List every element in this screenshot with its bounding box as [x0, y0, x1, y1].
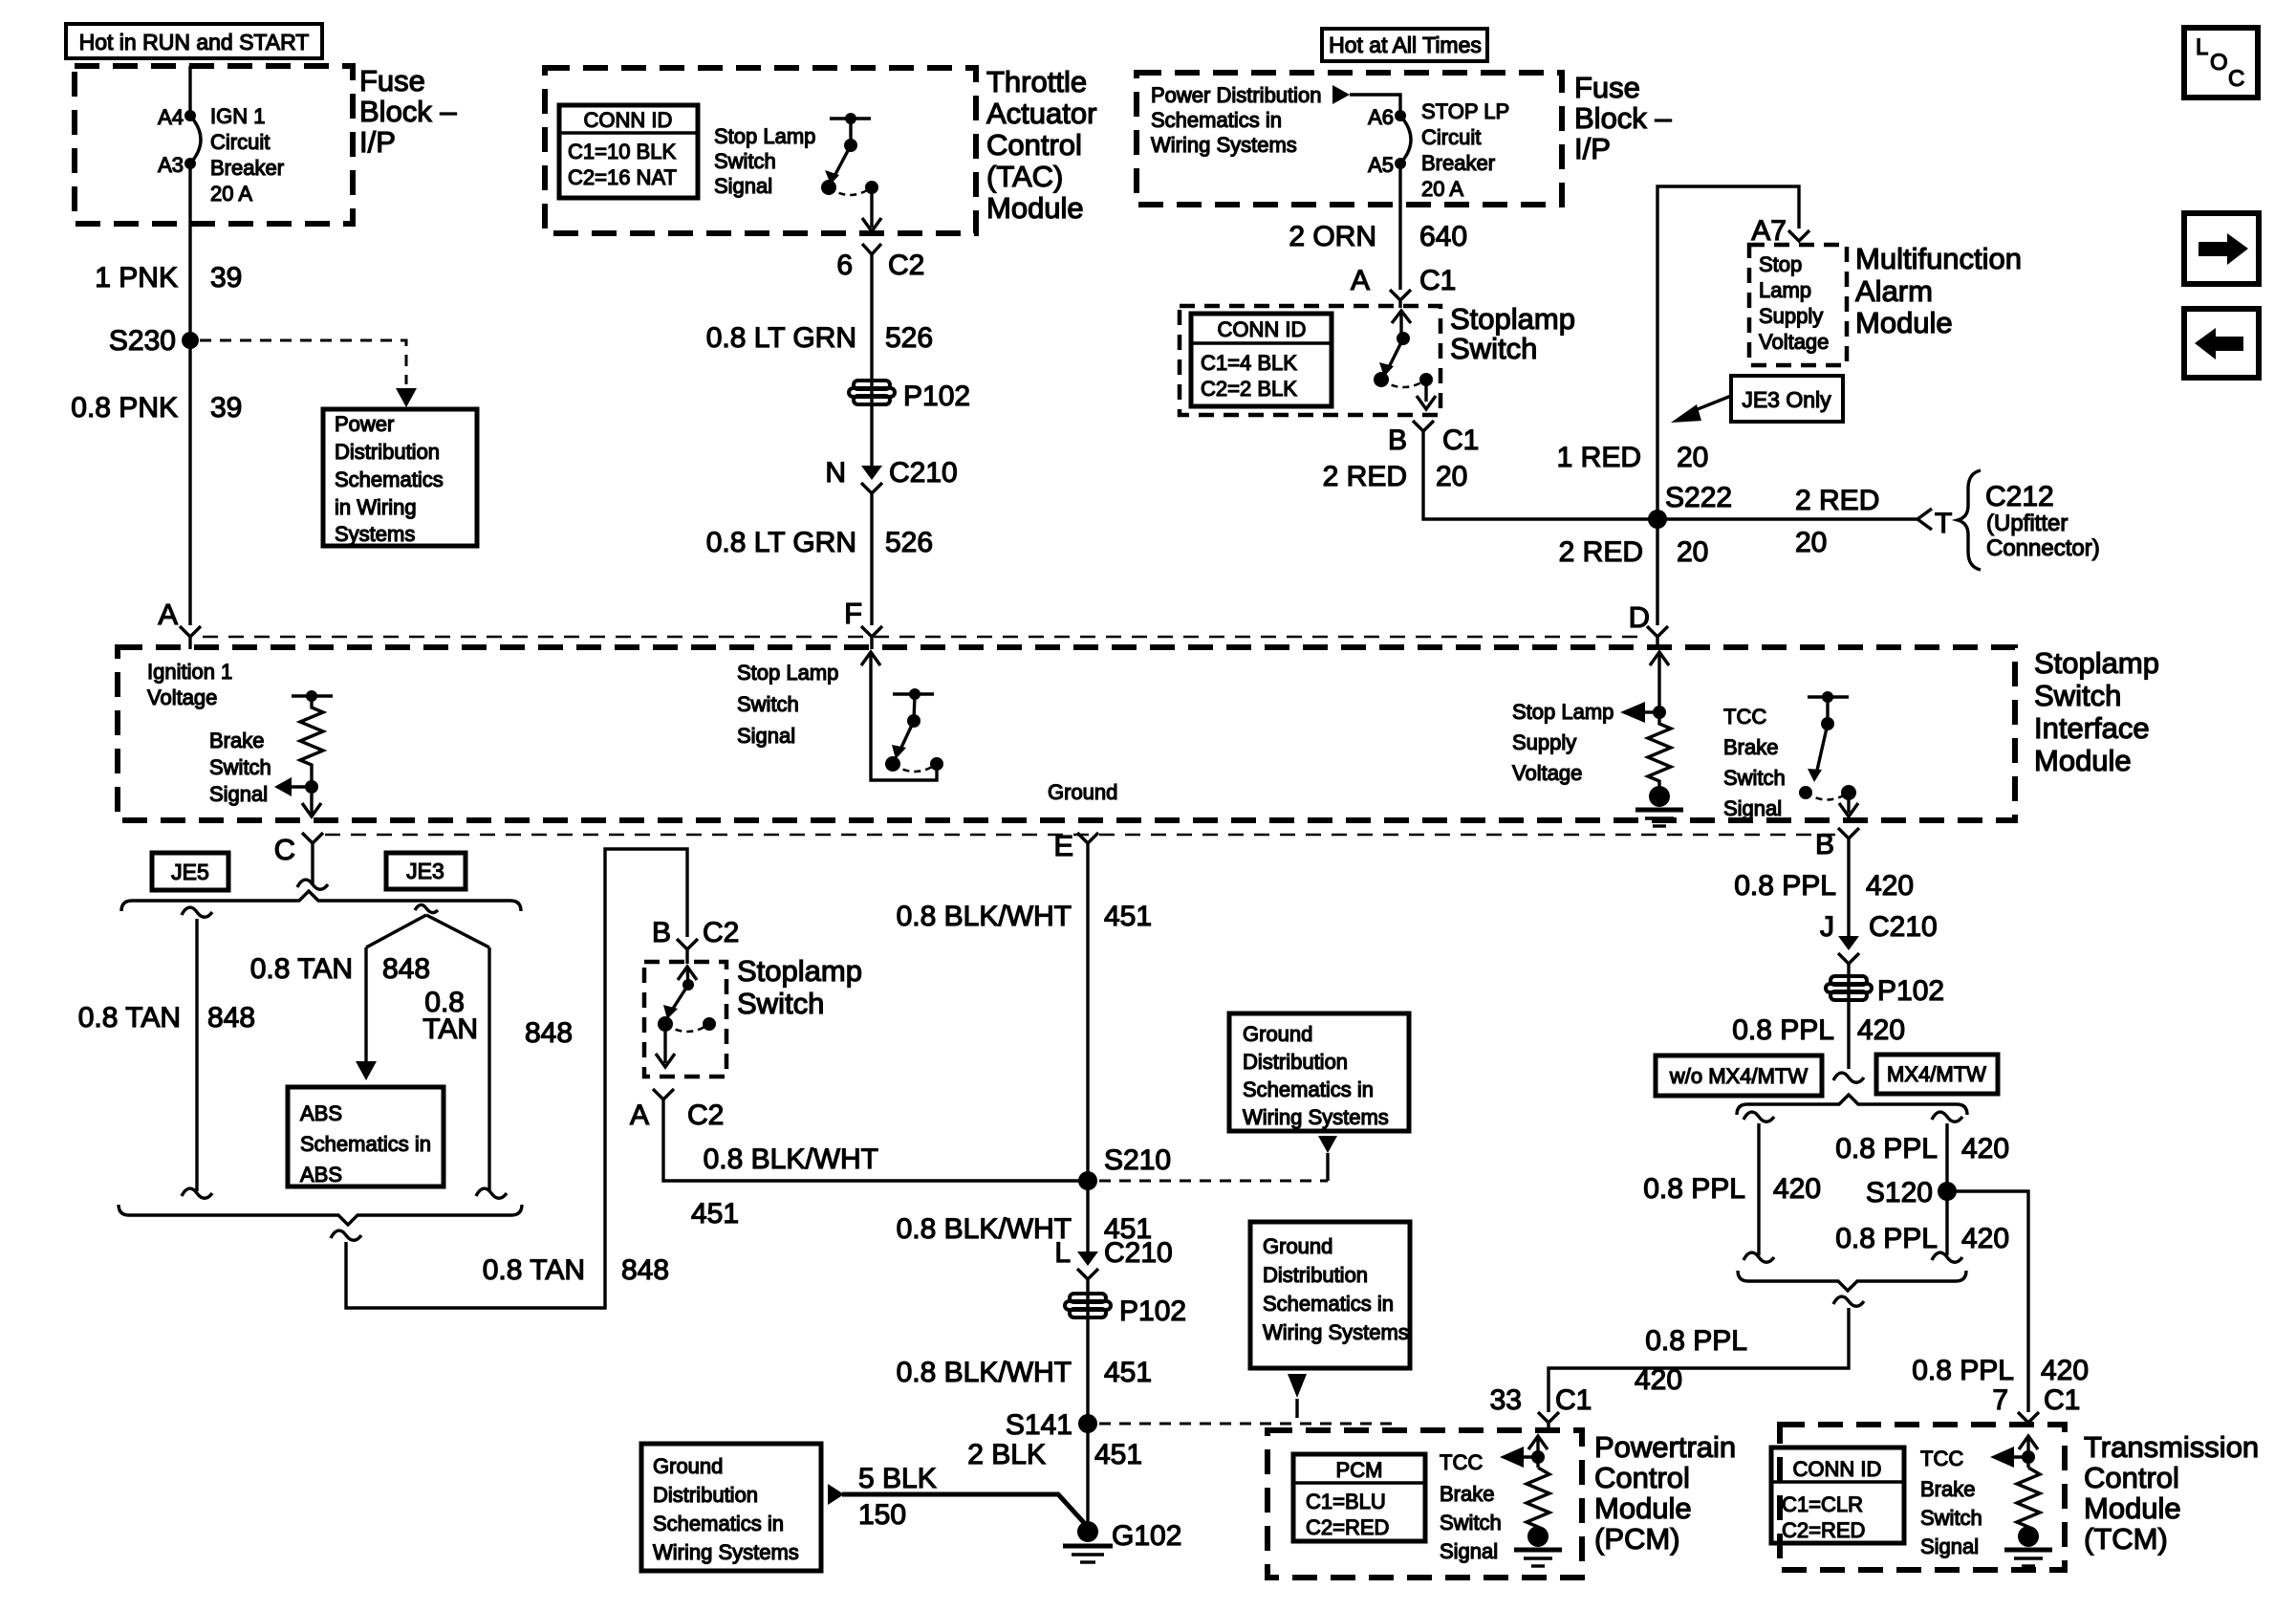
connector pin A of C2 (stoplamp switch 2) — [630, 1089, 724, 1131]
wire label 0.8 PPL 420 (below P102) — [1732, 1014, 1905, 1046]
wire label 0.8 PNK 39 — [71, 392, 242, 424]
svg-text:451: 451 — [691, 1198, 739, 1230]
svg-text:Switch: Switch — [714, 149, 776, 173]
svg-text:O: O — [2210, 50, 2228, 76]
svg-text:Actuator: Actuator — [986, 97, 1096, 130]
node C (interface module pin) — [274, 833, 328, 889]
TCC brake switch signal input (TCM) — [1990, 1436, 2038, 1468]
svg-text:848: 848 — [382, 953, 430, 985]
svg-text:1 RED: 1 RED — [1557, 442, 1641, 473]
label: Stop Lamp Supply Voltage (interface) — [1512, 700, 1614, 785]
label: TCC Brake Switch Signal (PCM) — [1440, 1450, 1502, 1563]
svg-text:P102: P102 — [1119, 1295, 1186, 1327]
svg-text:Signal: Signal — [1440, 1539, 1498, 1563]
svg-text:Hot at All Times: Hot at All Times — [1329, 33, 1482, 57]
svg-text:0.8 PPL: 0.8 PPL — [1645, 1325, 1747, 1357]
svg-text:IGN 1: IGN 1 — [210, 104, 265, 128]
svg-text:Switch: Switch — [1450, 332, 1537, 365]
svg-text:Powertrain: Powertrain — [1594, 1430, 1736, 1464]
connector face dashed line (top) — [203, 636, 1647, 639]
connector A7 (alarm module) — [1751, 215, 1809, 247]
svg-text:JE5: JE5 — [171, 860, 209, 884]
switch (stoplamp switch 2 contacts) — [656, 967, 716, 1067]
svg-text:Ignition 1: Ignition 1 — [147, 660, 232, 684]
grommet P102 (3) — [1826, 975, 1944, 1007]
circuit breaker IGN 1 20A (arc between A4 and A3) — [190, 116, 201, 163]
dashed reference link from S230 to Power Distribution box — [200, 340, 406, 384]
node E (interface module pin) — [1053, 829, 1098, 862]
svg-text:Stoplamp: Stoplamp — [1450, 302, 1575, 336]
svg-text:Distribution: Distribution — [335, 440, 440, 464]
svg-text:20: 20 — [1795, 527, 1827, 558]
module label: Fuse Block - I/P (right) — [1574, 71, 1672, 165]
module label: Throttle Actuator Control (TAC) Module — [986, 65, 1096, 225]
CONN ID table (stoplamp switch) — [1191, 314, 1332, 406]
wire label 0.8 PPL 420 (right branch lower) — [1835, 1223, 2009, 1254]
dashed reference link S141 to ground distribution — [1099, 1374, 1396, 1424]
svg-text:420: 420 — [1961, 1133, 2009, 1165]
svg-text:Signal: Signal — [209, 782, 268, 806]
CONN ID table (PCM) — [1293, 1454, 1425, 1541]
splice S210 — [1078, 1144, 1171, 1190]
svg-text:B: B — [652, 917, 671, 948]
splice S120 — [1866, 1177, 1957, 1208]
svg-text:TCC: TCC — [1723, 705, 1766, 729]
svg-text:Block –: Block – — [359, 95, 457, 128]
svg-text:Ground: Ground — [653, 1454, 723, 1478]
reference box: Ground Distribution Schematics in Wiring Systems (2) — [1250, 1222, 1410, 1368]
circuit breaker value label — [210, 104, 284, 206]
connector pin 33 of C1 (PCM) — [1490, 1384, 1592, 1432]
svg-text:5 BLK: 5 BLK — [858, 1463, 937, 1494]
svg-text:S141: S141 — [1006, 1409, 1072, 1441]
svg-text:Brake: Brake — [1920, 1477, 1975, 1501]
svg-text:Supply: Supply — [1512, 730, 1576, 754]
wire label 0.8 PPL 420 (B) — [1734, 870, 1914, 902]
wire label 2 RED 20 (to C212) — [1795, 485, 1879, 558]
multifunction alarm module dashed box — [1749, 245, 1847, 365]
wire: S222 up and over to alarm module A7 — [1657, 186, 1799, 519]
svg-text:451: 451 — [1104, 1357, 1152, 1388]
svg-text:Wiring Systems: Wiring Systems — [1263, 1320, 1409, 1344]
legend box: arrow right — [2184, 213, 2259, 284]
label: Stop Lamp Switch Signal (TAC internal) — [714, 124, 815, 198]
wire label 2 ORN 640 — [1289, 221, 1467, 252]
svg-text:0.8 BLK/WHT: 0.8 BLK/WHT — [897, 901, 1072, 932]
break squiggle on wire — [1833, 1073, 1864, 1082]
svg-text:Switch: Switch — [2034, 679, 2121, 712]
svg-text:C210: C210 — [889, 457, 958, 489]
svg-text:STOP LP: STOP LP — [1421, 99, 1509, 123]
inline connector C210 pin L — [1054, 1237, 1172, 1279]
wire: feed into circuit breaker — [188, 66, 191, 116]
svg-text:0.8 PPL: 0.8 PPL — [1835, 1133, 1938, 1165]
svg-text:Wiring Systems: Wiring Systems — [1151, 133, 1297, 157]
connector pin B of C1 (stoplamp switch) — [1388, 421, 1479, 456]
svg-text:B: B — [1388, 425, 1407, 456]
svg-text:Distribution: Distribution — [1243, 1050, 1348, 1074]
connector T of C212 — [1917, 508, 1952, 539]
node B (interface module pin, TCC output) — [1815, 828, 1859, 860]
TCM dashed module box — [1780, 1425, 2065, 1570]
svg-text:Control: Control — [1594, 1461, 1690, 1494]
svg-text:Breaker: Breaker — [1421, 151, 1495, 175]
module label: Transmission Control Module (TCM) — [2084, 1430, 2259, 1556]
svg-text:C212: C212 — [1985, 481, 2054, 512]
svg-text:C2=RED: C2=RED — [1306, 1515, 1389, 1539]
svg-text:20 A: 20 A — [210, 182, 252, 206]
wire: feed to breaker A6 — [1350, 95, 1400, 116]
svg-text:G102: G102 — [1112, 1520, 1181, 1552]
svg-text:526: 526 — [885, 527, 933, 558]
node A (interface module pin) — [158, 598, 201, 649]
svg-text:B: B — [1815, 829, 1834, 860]
svg-text:0.8 PPL: 0.8 PPL — [1734, 870, 1836, 902]
connector pin 7 of C1 (TCM) — [1992, 1384, 2080, 1426]
wire label 0.8 TAN 848 (JE3 right) — [422, 987, 573, 1049]
svg-text:Wiring Systems: Wiring Systems — [653, 1540, 799, 1564]
svg-text:E: E — [1053, 829, 1073, 862]
svg-text:0.8 PPL: 0.8 PPL — [1643, 1173, 1745, 1205]
svg-text:39: 39 — [210, 262, 242, 294]
svg-text:Switch: Switch — [1440, 1511, 1502, 1535]
svg-text:Schematics in: Schematics in — [1151, 108, 1282, 132]
svg-text:Control: Control — [2084, 1461, 2179, 1494]
svg-text:Multifunction: Multifunction — [1855, 242, 2022, 275]
svg-text:Schematics in: Schematics in — [1263, 1292, 1394, 1316]
svg-text:C1=BLU: C1=BLU — [1306, 1490, 1386, 1513]
svg-text:Brake: Brake — [1723, 735, 1778, 759]
svg-text:C1: C1 — [1442, 425, 1479, 456]
option split brace (MX4) — [1737, 1095, 1967, 1115]
svg-text:Stop Lamp: Stop Lamp — [714, 124, 815, 148]
module label: Fuse Block - I/P — [359, 64, 457, 159]
arrow into reference box — [396, 388, 417, 407]
svg-text:Module: Module — [2034, 744, 2132, 777]
wire label 0.8 BLK/WHT 451 (switch to S210) — [691, 1143, 878, 1230]
svg-text:C: C — [2228, 66, 2244, 92]
reference box: ABS Schematics in ABS — [288, 1087, 444, 1186]
svg-text:C2: C2 — [703, 917, 739, 948]
PCM dashed module box — [1267, 1430, 1582, 1578]
connector face dashed line (bottom) — [325, 834, 1835, 837]
svg-text:420: 420 — [2041, 1355, 2089, 1386]
svg-text:C2=2 BLK: C2=2 BLK — [1201, 377, 1297, 401]
breaker label STOP LP — [1421, 99, 1509, 201]
node D (interface module pin) — [1629, 600, 1668, 649]
svg-text:w/o MX4/MTW: w/o MX4/MTW — [1669, 1064, 1808, 1088]
wire label 0.8 BLK/WHT 451 (E) — [897, 901, 1152, 932]
pin A3 — [184, 158, 196, 169]
wire label 0.8 PPL 420 (to TCM) — [1912, 1355, 2089, 1386]
option box JE5 — [152, 853, 228, 890]
svg-text:Circuit: Circuit — [210, 130, 270, 154]
svg-text:Schematics in: Schematics in — [1243, 1078, 1374, 1101]
svg-text:Stop Lamp: Stop Lamp — [1512, 700, 1614, 724]
wire: E down to C210 — [1086, 843, 1089, 1260]
connector pin B of C2 (stoplamp switch 2) — [652, 917, 739, 964]
wire: S120 right and down to TCM pin 7 — [1947, 1191, 2028, 1412]
wire: C210 down — [1086, 1279, 1089, 1531]
svg-text:C2=RED: C2=RED — [1782, 1518, 1865, 1542]
svg-text:Ground: Ground — [1243, 1022, 1312, 1046]
svg-text:C210: C210 — [1869, 911, 1938, 943]
label box: Hot at All Times — [1322, 29, 1487, 61]
svg-text:ABS: ABS — [300, 1101, 342, 1125]
wire label 0.8 TAN 848 (merged) — [483, 1254, 669, 1286]
svg-text:PCM: PCM — [1336, 1458, 1383, 1482]
svg-text:Voltage: Voltage — [147, 686, 217, 709]
JE3 left branch arrow to ABS reference — [356, 947, 377, 1080]
svg-text:Fuse: Fuse — [359, 64, 425, 98]
merged wire down and over to stoplamp switch feed — [331, 849, 687, 1308]
wire label 0.8 LT GRN 526 — [706, 322, 933, 354]
svg-text:2 RED: 2 RED — [1795, 485, 1879, 516]
label box: Hot in RUN and START — [66, 24, 322, 58]
stop lamp supply voltage arrow (from pin D) — [1620, 652, 1669, 723]
brace and label C212 (Upfitter Connector) — [1958, 470, 2100, 570]
wire: B down to C210 pin J — [1847, 838, 1850, 945]
svg-text:0.8 PPL: 0.8 PPL — [1835, 1223, 1938, 1254]
svg-text:20: 20 — [1436, 461, 1467, 492]
svg-text:0.8 TAN: 0.8 TAN — [250, 953, 353, 985]
wire label 0.8 BLK/WHT 451 (below S210) — [897, 1213, 1152, 1245]
connector pin 6 of C2 (TAC) — [836, 244, 924, 281]
arrow feed from power distribution — [1332, 85, 1350, 104]
svg-text:Schematics: Schematics — [335, 468, 444, 491]
svg-text:in Wiring: in Wiring — [335, 495, 417, 519]
svg-text:420: 420 — [1773, 1173, 1821, 1205]
wire: S222 down to interface module pin D — [1656, 519, 1658, 625]
svg-text:20: 20 — [1677, 536, 1708, 568]
svg-text:Switch: Switch — [1723, 766, 1786, 790]
right option branch wire — [1932, 1112, 1962, 1262]
svg-text:A4: A4 — [158, 105, 184, 129]
splice S222 — [1648, 482, 1732, 529]
wire label 1 PNK 39 — [95, 262, 242, 294]
grommet P102 — [849, 381, 970, 412]
svg-text:JE3 Only: JE3 Only — [1742, 387, 1831, 412]
svg-text:6: 6 — [836, 250, 853, 281]
wire label 2 RED 20 (lower) — [1559, 536, 1709, 568]
svg-text:0.8 PPL: 0.8 PPL — [1732, 1014, 1834, 1046]
switch (stoplamp switch contacts) — [1374, 311, 1436, 409]
svg-text:2 RED: 2 RED — [1323, 461, 1407, 492]
svg-text:C2: C2 — [888, 250, 924, 281]
svg-text:(PCM): (PCM) — [1594, 1522, 1680, 1556]
svg-text:TCC: TCC — [1920, 1447, 1963, 1470]
svg-text:CONN ID: CONN ID — [1218, 317, 1307, 341]
wire: switch B down and over to S222 — [1423, 431, 1657, 519]
svg-text:Distribution: Distribution — [653, 1483, 758, 1507]
svg-text:7: 7 — [1992, 1384, 2008, 1416]
svg-text:Module: Module — [986, 191, 1084, 225]
svg-text:0.8 BLK/WHT: 0.8 BLK/WHT — [897, 1213, 1072, 1245]
label: Stop Lamp Switch Signal (interface) — [737, 661, 838, 748]
svg-text:C1=4 BLK: C1=4 BLK — [1201, 351, 1297, 375]
svg-text:Power Distribution: Power Distribution — [1151, 83, 1322, 107]
pin A6 — [1395, 110, 1406, 121]
svg-text:I/P: I/P — [359, 125, 396, 159]
svg-text:848: 848 — [207, 1002, 255, 1034]
svg-text:420: 420 — [1635, 1364, 1682, 1396]
wire label 2 RED 20 — [1323, 461, 1468, 492]
svg-text:L: L — [1054, 1237, 1071, 1269]
svg-text:Circuit: Circuit — [1421, 125, 1481, 149]
svg-text:MX4/MTW: MX4/MTW — [1887, 1062, 1986, 1086]
svg-text:N: N — [825, 457, 846, 489]
svg-text:Switch: Switch — [737, 987, 824, 1020]
svg-text:Signal: Signal — [1920, 1535, 1979, 1558]
svg-text:A3: A3 — [158, 153, 184, 177]
svg-text:S120: S120 — [1866, 1177, 1933, 1208]
svg-text:Transmission: Transmission — [2084, 1430, 2259, 1464]
svg-text:C1: C1 — [2044, 1384, 2080, 1416]
splice S230 — [109, 325, 199, 357]
svg-text:J: J — [1820, 911, 1834, 943]
stoplamp switch dashed box — [1180, 306, 1440, 415]
svg-text:A7: A7 — [1751, 215, 1787, 247]
wire label 0.8 BLK/WHT 451 (below P102) — [897, 1357, 1152, 1388]
svg-text:C: C — [274, 833, 295, 866]
svg-text:C210: C210 — [1104, 1237, 1173, 1269]
module label: Stoplamp Switch Interface Module — [2034, 646, 2159, 777]
fuse block I/P (right) dashed module box — [1137, 73, 1562, 205]
svg-text:F: F — [844, 597, 862, 630]
svg-text:0.8 BLK/WHT: 0.8 BLK/WHT — [704, 1143, 878, 1175]
module label: Multifunction Alarm Module — [1855, 242, 2022, 339]
svg-text:20: 20 — [1677, 442, 1708, 473]
svg-text:A: A — [158, 598, 178, 631]
wire: TAC pin 6 down to C210 — [870, 254, 873, 474]
svg-text:Voltage: Voltage — [1512, 761, 1582, 785]
svg-text:D: D — [1629, 600, 1650, 634]
svg-text:Schematics in: Schematics in — [653, 1512, 784, 1535]
svg-text:Switch: Switch — [737, 692, 799, 716]
svg-text:2 BLK: 2 BLK — [967, 1439, 1046, 1470]
svg-text:TAN: TAN — [422, 1013, 478, 1045]
svg-text:JE3: JE3 — [406, 859, 444, 883]
reference text: Power Distribution Schematics in Wiring Systems — [1151, 83, 1322, 157]
wire label 0.8 TAN 848 (JE3 left) — [250, 953, 430, 985]
left option branch wire — [1744, 1112, 1774, 1262]
circuit breaker STOP LP 20A (arc) — [1400, 116, 1411, 163]
wire label 0.8 PPL 420 (right branch upper) — [1835, 1133, 2009, 1165]
svg-text:526: 526 — [885, 322, 933, 354]
JE5 branch wire — [182, 907, 212, 1198]
pull-down resistor to ground (TCM) — [2004, 1468, 2052, 1566]
wire: switch A down and over to splice S210 — [663, 1099, 1088, 1181]
brake switch signal tap arrow — [209, 729, 312, 806]
svg-text:0.8 LT GRN: 0.8 LT GRN — [706, 527, 856, 558]
reference box: Ground Distribution Schematics in Wiring Systems (3) — [641, 1444, 821, 1571]
svg-text:150: 150 — [858, 1499, 906, 1531]
svg-text:20 A: 20 A — [1421, 177, 1463, 201]
option merge brace (MX4 bottom) — [1738, 1271, 1966, 1291]
switch (interface middle) — [885, 688, 943, 772]
module label: Stoplamp Switch (2) — [737, 954, 862, 1020]
wire: C210 down to option split — [1847, 964, 1850, 1069]
label: TCC Brake Switch Signal (interface) — [1723, 705, 1786, 820]
CONN ID table (TAC) — [559, 105, 698, 198]
wire label 0.8 LT GRN 526 (lower) — [706, 527, 933, 558]
reference box: Power Distribution Schematics in Wiring Systems — [323, 409, 477, 546]
svg-text:L: L — [2196, 34, 2208, 60]
svg-text:Power: Power — [335, 412, 394, 436]
svg-text:0.8 PPL: 0.8 PPL — [1912, 1355, 2014, 1386]
svg-text:Signal: Signal — [714, 174, 772, 198]
inline connector C210 pin N — [825, 457, 957, 493]
svg-text:Interface: Interface — [2034, 711, 2150, 745]
svg-text:(TAC): (TAC) — [986, 160, 1063, 193]
svg-text:33: 33 — [1490, 1384, 1522, 1416]
LOC legend box — [2184, 28, 2258, 98]
svg-text:Systems: Systems — [335, 522, 415, 546]
option box: JE3 Only — [1731, 376, 1843, 422]
option split brace (under C) — [121, 891, 521, 911]
svg-text:640: 640 — [1419, 221, 1467, 252]
label: Ignition 1 Voltage — [147, 660, 232, 709]
svg-text:(TCM): (TCM) — [2084, 1522, 2168, 1556]
svg-text:CONN ID: CONN ID — [584, 108, 673, 132]
switch (TCC brake switch output) — [1799, 691, 1858, 816]
svg-text:451: 451 — [1094, 1439, 1142, 1470]
merged wire down and over to PCM pin 33 — [1549, 1296, 1864, 1412]
svg-text:Wiring Systems: Wiring Systems — [1243, 1105, 1389, 1129]
svg-text:S210: S210 — [1104, 1144, 1171, 1176]
option merge brace (bottom) — [119, 1205, 522, 1225]
wire label 2 BLK 451 — [967, 1439, 1142, 1470]
svg-text:Switch: Switch — [1920, 1506, 1982, 1530]
svg-text:0.8 LT GRN: 0.8 LT GRN — [706, 322, 856, 354]
svg-text:848: 848 — [621, 1254, 669, 1286]
svg-text:C1=10 BLK: C1=10 BLK — [568, 140, 676, 163]
svg-text:Stop: Stop — [1759, 252, 1802, 276]
svg-text:Module: Module — [1855, 306, 1953, 339]
svg-text:Stoplamp: Stoplamp — [737, 954, 862, 988]
svg-text:(Upfitter: (Upfitter — [1986, 511, 2068, 536]
wire: A3 down to interface module connector A — [188, 163, 191, 625]
svg-text:A: A — [1351, 265, 1370, 296]
svg-text:S230: S230 — [109, 325, 176, 357]
svg-text:C1: C1 — [1419, 265, 1456, 296]
svg-text:P102: P102 — [903, 381, 970, 412]
svg-text:Stop Lamp: Stop Lamp — [737, 661, 838, 685]
switch (TAC stop lamp switch signal input) — [821, 113, 881, 231]
label: TCC Brake Switch Signal (TCM) — [1920, 1447, 1982, 1558]
svg-text:C1: C1 — [1555, 1384, 1592, 1416]
svg-text:Brake: Brake — [209, 729, 264, 752]
svg-text:451: 451 — [1104, 901, 1152, 932]
svg-text:Distribution: Distribution — [1263, 1263, 1368, 1287]
svg-text:Hot in RUN and START: Hot in RUN and START — [79, 30, 310, 54]
svg-text:Breaker: Breaker — [210, 156, 284, 180]
svg-text:Supply: Supply — [1759, 304, 1823, 328]
pin A4 — [184, 110, 196, 121]
svg-text:Control: Control — [986, 128, 1082, 162]
JE3 branch split apex — [366, 904, 489, 947]
svg-text:848: 848 — [525, 1017, 573, 1049]
wire: C210 down to interface module pin F — [870, 493, 873, 625]
svg-text:Alarm: Alarm — [1855, 274, 1933, 308]
svg-text:Ground: Ground — [1048, 780, 1117, 804]
module label: Stoplamp Switch — [1450, 302, 1575, 365]
svg-text:420: 420 — [1961, 1223, 2009, 1254]
splice S141 — [1006, 1409, 1097, 1441]
svg-text:Signal: Signal — [1723, 796, 1782, 820]
svg-text:Fuse: Fuse — [1574, 71, 1640, 104]
wire label 0.8 PPL 420 (to PCM) — [1635, 1325, 1747, 1396]
